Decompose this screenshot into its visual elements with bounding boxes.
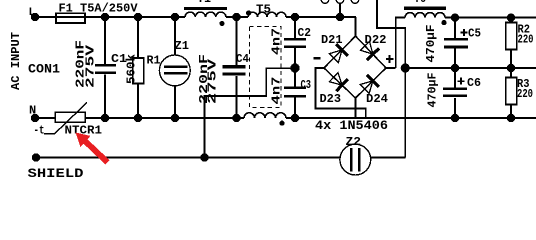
node C2 top [291, 13, 299, 21]
svg-text:C4: C4 [236, 52, 249, 66]
label 4x 1N5406 [315, 118, 388, 133]
wire L rail: T1 to T5 [226, 16, 248, 18]
svg-text:D21: D21 [321, 33, 343, 47]
node C1 top [101, 13, 109, 21]
wire bridge minus path [316, 68, 366, 118]
fuse F1 [56, 2, 138, 24]
wire mid rail riser down to shield [404, 68, 406, 158]
node C3 bottom [291, 114, 299, 122]
svg-text:L: L [29, 7, 36, 19]
node connector stem [336, 13, 344, 21]
svg-text:275V: 275V [205, 58, 219, 104]
capacitor C1 [74, 17, 128, 118]
svg-text:T1: T1 [197, 0, 211, 6]
node mid rail left [401, 63, 410, 72]
svg-text:C2: C2 [298, 26, 312, 40]
node C4 top [232, 13, 240, 21]
wire mid rail [405, 67, 536, 69]
node C6 bottom [451, 114, 459, 122]
wire N rail and minus rail to right edge [286, 117, 536, 119]
diode D21 [328, 43, 349, 64]
svg-text:-t: -t [34, 124, 45, 138]
node N [29, 104, 39, 123]
node R1 bottom [134, 114, 142, 122]
svg-text:F1 T5A/250V: F1 T5A/250V [59, 2, 139, 16]
capacitor C4 [197, 17, 249, 118]
red annotation arrow [76, 133, 110, 165]
T5 core dashed box [250, 27, 282, 108]
node Z1 bottom [171, 114, 179, 122]
surge arrester Z2 [340, 135, 371, 175]
node L [29, 7, 40, 21]
common mode choke T5 top winding [246, 3, 286, 18]
capacitor C3 [270, 68, 312, 118]
svg-text:D23: D23 [320, 92, 342, 106]
svg-text:Z2: Z2 [346, 135, 362, 149]
svg-text:T5: T5 [256, 3, 271, 17]
resistor R2 [506, 18, 534, 68]
svg-text:AC INPUT: AC INPUT [9, 32, 23, 90]
capacitor C6 [426, 68, 482, 118]
svg-text:275V: 275V [84, 44, 98, 88]
label AC INPUT [9, 32, 23, 90]
svg-text:SHIELD: SHIELD [28, 166, 84, 181]
thermistor NTCR1 [34, 103, 103, 138]
node R1 top [134, 13, 142, 21]
node R3 bottom [507, 114, 515, 122]
svg-text:N: N [29, 104, 36, 118]
bridge edge D22 line [356, 36, 387, 68]
svg-text:C6: C6 [467, 76, 481, 90]
inductor T1 [184, 0, 227, 26]
wire Y-cap midpoint to shield [205, 68, 296, 157]
wire L rail: L node through fuse to T1 [35, 16, 185, 18]
label D21 [321, 33, 343, 47]
resistor R1 [125, 17, 161, 118]
diode D24 [359, 74, 380, 95]
node shield left [28, 153, 84, 181]
node C5 bottom [451, 64, 459, 72]
diode D22 [359, 40, 380, 61]
connector CON1 [28, 62, 60, 77]
label D22 [365, 33, 387, 47]
wire N rail: NTC to T5 bottom [85, 117, 244, 119]
node R2 bottom [507, 64, 515, 72]
node Y-cap midpoint [290, 63, 299, 72]
wire shield rail [36, 157, 340, 159]
label D24 [366, 92, 388, 106]
svg-text:470µF: 470µF [424, 25, 438, 63]
diode D23 [328, 71, 349, 92]
node C1 bottom [101, 114, 109, 122]
wire Z2 to riser [370, 157, 405, 159]
wire bridge plus to top output rail [386, 18, 405, 68]
resistor R3 [506, 68, 533, 118]
bridge edge D24 line [356, 68, 387, 98]
svg-text:C5: C5 [468, 27, 481, 41]
node Z1 top [171, 13, 179, 21]
node C4 bottom [232, 114, 240, 122]
capacitor C5 [424, 18, 481, 68]
common mode choke T5 bottom winding [244, 113, 286, 126]
svg-text:CON1: CON1 [28, 62, 60, 77]
wire top output rail right [445, 17, 536, 19]
wire N rail: N node to NTC [35, 117, 55, 119]
connector circles to transformer [321, 0, 359, 3]
wire transformer lead to mid rail [377, 0, 405, 68]
svg-text:560k: 560k [125, 54, 139, 84]
wire L rail: T5 to bridge drop [286, 16, 356, 18]
svg-text:C3: C3 [301, 78, 312, 92]
label minus [314, 57, 321, 59]
bridge edge D23 line [324, 68, 356, 98]
svg-text:220: 220 [517, 87, 533, 101]
label plus [386, 55, 394, 63]
capacitor C2 [270, 17, 312, 68]
svg-text:Z1: Z1 [175, 39, 190, 53]
surge arrester Z1 [159, 17, 190, 118]
wire drop to bridge top vertex [355, 17, 357, 36]
node R2 top [507, 13, 515, 21]
svg-text:4n7: 4n7 [270, 28, 284, 55]
svg-text:T6: T6 [414, 0, 426, 6]
svg-text:D24: D24 [366, 92, 388, 106]
svg-text:D22: D22 [365, 33, 387, 47]
wire bridge bottom vertex down [355, 98, 357, 118]
svg-text:4n7: 4n7 [270, 77, 284, 105]
node shield mid [200, 153, 208, 161]
svg-text:470µF: 470µF [426, 73, 440, 108]
wire connector stem [339, 3, 341, 17]
filter choke T6 [404, 0, 447, 25]
label D23 [320, 92, 342, 106]
svg-text:220: 220 [518, 33, 534, 47]
bridge edge D21 line [324, 36, 356, 68]
svg-text:4x 1N5406: 4x 1N5406 [315, 118, 388, 133]
svg-text:R1: R1 [147, 54, 161, 68]
node C5 top [451, 13, 459, 21]
